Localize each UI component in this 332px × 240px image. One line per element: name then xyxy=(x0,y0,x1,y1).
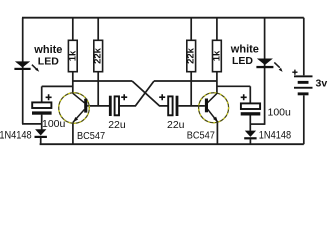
svg-text:100u: 100u xyxy=(42,118,66,130)
svg-text:1N4148: 1N4148 xyxy=(259,130,292,142)
wire right rail jog to diode xyxy=(250,123,265,125)
wire 100u right top lead xyxy=(249,86,251,103)
wire 100u left bottom lead to diode xyxy=(41,115,43,130)
wire 1k right to Q2 collector xyxy=(216,72,218,94)
svg-text:22k: 22k xyxy=(93,47,104,64)
LED D4 white right xyxy=(256,59,282,72)
transistor Q1 BC547 xyxy=(59,93,105,142)
svg-text:BC547: BC547 xyxy=(77,130,105,141)
wire coupling diagonal Q1 collector to C2 plus xyxy=(132,81,168,106)
diode D2 1N4148 left xyxy=(0,129,47,142)
svg-text:BC547: BC547 xyxy=(187,130,215,141)
wire battery bottom lead xyxy=(303,95,305,144)
wire bottom ground rail xyxy=(40,143,304,145)
wire C1 plus diagonal up to right xyxy=(120,81,154,106)
label white LED left xyxy=(33,44,62,68)
svg-text:22u: 22u xyxy=(167,119,185,131)
wire 22k left down to Q1 base node xyxy=(97,72,99,106)
resistor R4 1k right xyxy=(211,40,222,71)
wire 22k left lead from rail xyxy=(97,18,99,41)
battery BT1 3v xyxy=(292,70,327,96)
wire Q2 emitter to ground xyxy=(216,122,218,144)
svg-text:1N4148: 1N4148 xyxy=(0,130,32,142)
wire 1k right lead from rail xyxy=(216,18,218,41)
wire top supply rail xyxy=(22,17,304,19)
svg-text:22k: 22k xyxy=(186,47,197,64)
wire 100u right bottom lead xyxy=(249,115,251,130)
svg-text:3v: 3v xyxy=(316,78,328,90)
resistor R3 22k right xyxy=(186,40,197,71)
diode D3 1N4148 right xyxy=(244,130,291,142)
wire Q1 base to C1 xyxy=(87,105,109,107)
svg-text:1k: 1k xyxy=(67,50,78,61)
wire left rail jog to diode xyxy=(22,123,42,125)
capacitor C3 100u left xyxy=(32,94,66,130)
wire 100u left top to Q1 collector xyxy=(42,85,73,87)
wire 100u left top lead xyxy=(41,86,43,102)
label white LED right xyxy=(230,43,259,67)
wire 1k left lead from rail xyxy=(72,18,74,41)
svg-text:LED: LED xyxy=(232,55,253,67)
svg-text:22u: 22u xyxy=(108,119,126,131)
wire Q1 emitter to ground xyxy=(72,122,74,144)
svg-text:100u: 100u xyxy=(268,106,292,118)
wire 1k left to Q1 collector xyxy=(72,72,74,94)
wire Q2 collector to 100u right xyxy=(217,85,250,87)
wire left diode to ground xyxy=(40,138,42,144)
LED D1 white left xyxy=(14,61,39,71)
wire right diode to ground xyxy=(249,139,251,144)
svg-text:white: white xyxy=(33,44,62,56)
wire C2 to Q2 base xyxy=(179,105,205,107)
wire 22k right down to Q2 base node xyxy=(190,72,192,106)
wire 22k right lead from rail xyxy=(190,18,192,41)
capacitor C4 100u right xyxy=(241,94,291,118)
wire left rail xyxy=(22,18,24,124)
wire Q1 collector to coupling (upper left horizontal) xyxy=(73,80,132,82)
resistor R1 1k left xyxy=(67,40,78,71)
svg-text:1k: 1k xyxy=(211,50,222,61)
wire battery top lead xyxy=(303,18,305,76)
wire upper right horizontal to Q2 collector xyxy=(154,80,217,82)
transistor Q2 BC547 xyxy=(187,93,229,142)
capacitor C1 22u left xyxy=(108,94,127,131)
resistor R2 22k left xyxy=(93,40,104,71)
wire right LED rail xyxy=(264,18,266,124)
svg-text:white: white xyxy=(230,43,259,55)
svg-text:LED: LED xyxy=(38,55,59,67)
capacitor C2 22u right xyxy=(159,94,184,131)
